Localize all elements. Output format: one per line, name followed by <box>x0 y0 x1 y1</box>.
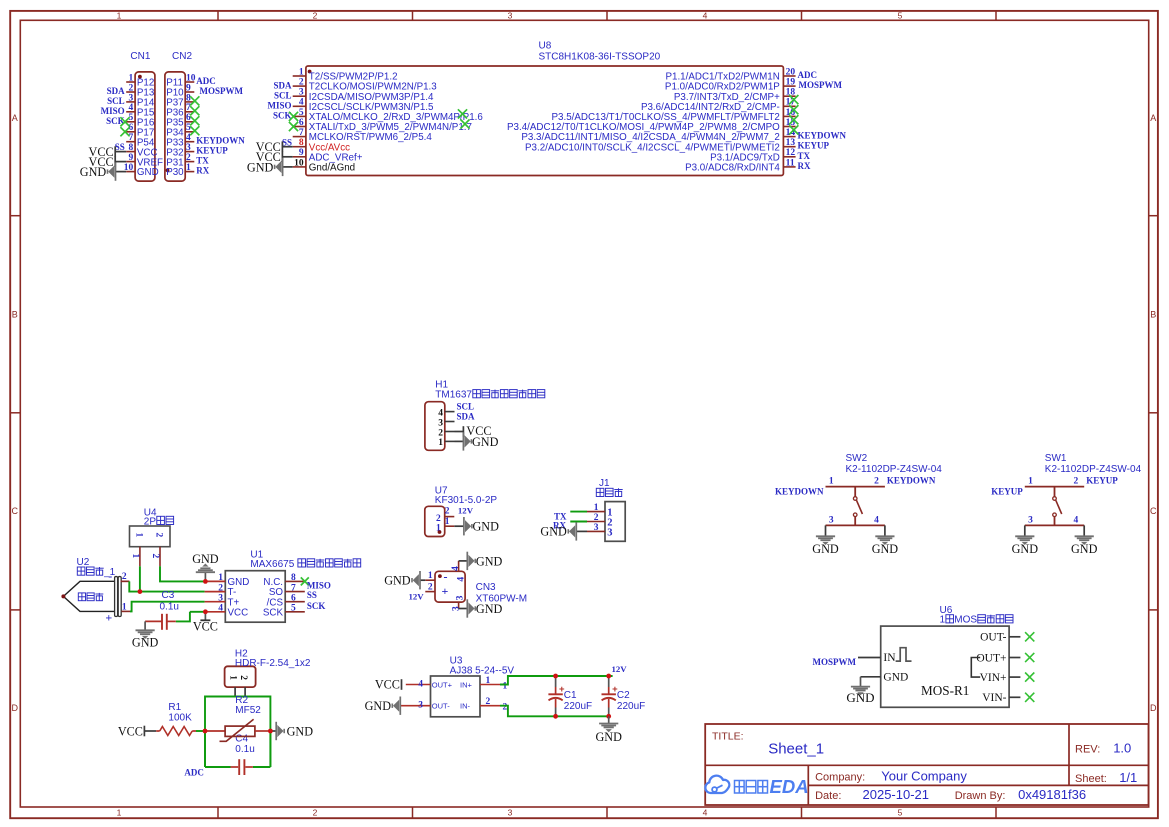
svg-text:Drawn By:: Drawn By: <box>955 790 1006 802</box>
svg-text:1: 1 <box>428 571 433 581</box>
svg-text:C: C <box>1150 506 1157 516</box>
svg-text:GND: GND <box>247 160 274 174</box>
svg-text:ADC: ADC <box>798 70 818 80</box>
svg-text:KEYDOWN: KEYDOWN <box>798 131 847 141</box>
svg-text:MOSPWM: MOSPWM <box>799 80 843 90</box>
svg-text:1: 1 <box>128 73 133 83</box>
svg-text:1: 1 <box>445 517 450 527</box>
svg-text:1: 1 <box>299 67 304 77</box>
svg-text:6: 6 <box>299 118 304 128</box>
svg-text:4: 4 <box>456 577 466 582</box>
svg-text:MF52: MF52 <box>235 705 261 716</box>
svg-text:3: 3 <box>186 143 191 153</box>
svg-text:VCC: VCC <box>228 607 249 618</box>
svg-text:3: 3 <box>418 701 423 711</box>
svg-text:TM1637: TM1637 <box>435 390 472 401</box>
svg-text:8: 8 <box>128 143 133 153</box>
svg-text:SCL: SCL <box>107 96 125 106</box>
svg-text:A: A <box>1150 113 1156 123</box>
svg-text:B: B <box>1150 310 1156 320</box>
svg-text:Sheet:: Sheet: <box>1075 773 1107 785</box>
svg-text:1: 1 <box>186 163 191 173</box>
svg-text:GND: GND <box>472 435 499 449</box>
svg-text:C1: C1 <box>564 690 577 701</box>
svg-text:4: 4 <box>438 408 443 418</box>
svg-text:KEYUP: KEYUP <box>798 141 830 151</box>
svg-text:KEYDOWN: KEYDOWN <box>775 486 824 496</box>
svg-text:EDA: EDA <box>770 776 809 797</box>
svg-text:IN: IN <box>883 652 896 664</box>
svg-text:3: 3 <box>594 523 599 533</box>
svg-text:R1: R1 <box>168 702 181 713</box>
svg-text:A: A <box>12 113 18 123</box>
svg-text:1: 1 <box>130 554 140 559</box>
svg-text:MOS-R1: MOS-R1 <box>921 683 969 698</box>
svg-text:3: 3 <box>456 595 466 600</box>
svg-text:3: 3 <box>1028 516 1033 526</box>
svg-text:U8: U8 <box>539 41 552 52</box>
svg-text:1: 1 <box>134 533 144 538</box>
svg-text:SW2: SW2 <box>846 453 868 464</box>
svg-text:11: 11 <box>786 158 795 168</box>
svg-text:MAX6675: MAX6675 <box>250 559 297 570</box>
svg-text:GND: GND <box>872 542 899 556</box>
svg-text:2P: 2P <box>144 516 157 527</box>
svg-text:3: 3 <box>451 606 461 611</box>
svg-text:3: 3 <box>299 88 304 98</box>
svg-text:GND: GND <box>365 699 392 713</box>
svg-text:B: B <box>12 310 18 320</box>
svg-text:Date:: Date: <box>815 790 841 802</box>
svg-text:1.0: 1.0 <box>1113 741 1131 756</box>
svg-text:2: 2 <box>299 78 304 88</box>
svg-text:2: 2 <box>436 514 441 524</box>
svg-text:-: - <box>444 570 448 584</box>
svg-text:2: 2 <box>1073 477 1078 487</box>
svg-text:SCK: SCK <box>263 607 284 618</box>
svg-text:220uF: 220uF <box>617 701 645 712</box>
svg-text:ADC: ADC <box>196 76 216 86</box>
svg-text:SCL: SCL <box>274 90 292 100</box>
svg-text:GND: GND <box>476 602 503 616</box>
svg-text:0.1u: 0.1u <box>235 744 254 755</box>
svg-text:4: 4 <box>703 11 708 21</box>
svg-text:VCC: VCC <box>193 620 218 634</box>
svg-text:GND: GND <box>80 165 107 179</box>
svg-text:4: 4 <box>874 516 879 526</box>
svg-text:C: C <box>12 506 19 516</box>
svg-text:KEYUP: KEYUP <box>991 486 1023 496</box>
svg-text:HDR-F-2.54_1x2: HDR-F-2.54_1x2 <box>235 658 311 669</box>
svg-text:7: 7 <box>128 133 133 143</box>
svg-text:1/1: 1/1 <box>1119 770 1137 785</box>
svg-text:4: 4 <box>1073 516 1078 526</box>
svg-text:1: 1 <box>117 808 122 818</box>
svg-text:MOSPWM: MOSPWM <box>200 86 244 96</box>
svg-text:D: D <box>1150 703 1157 713</box>
svg-text:MOS: MOS <box>954 615 977 626</box>
svg-text:1: 1 <box>486 676 491 686</box>
svg-text:VIN-: VIN- <box>982 692 1006 704</box>
svg-text:C2: C2 <box>617 690 630 701</box>
svg-text:2: 2 <box>154 533 164 538</box>
svg-text:VCC: VCC <box>118 724 143 738</box>
svg-text:GND: GND <box>192 552 219 566</box>
svg-text:KEYUP: KEYUP <box>1086 475 1118 485</box>
svg-text:3: 3 <box>607 528 612 539</box>
svg-text:K2-1102DP-Z4SW-04: K2-1102DP-Z4SW-04 <box>846 464 943 475</box>
svg-text:VIN+: VIN+ <box>980 672 1007 684</box>
svg-text:1: 1 <box>940 615 946 626</box>
svg-text:SCL: SCL <box>457 402 475 412</box>
svg-text:7: 7 <box>299 128 304 138</box>
svg-text:1: 1 <box>594 503 599 513</box>
svg-text:2: 2 <box>445 507 450 517</box>
svg-text:+: + <box>442 584 449 598</box>
svg-text:KEYDOWN: KEYDOWN <box>196 136 245 146</box>
svg-text:D: D <box>12 703 19 713</box>
svg-text:1: 1 <box>829 477 834 487</box>
svg-text:GND: GND <box>1012 542 1039 556</box>
svg-text:Your Company: Your Company <box>881 768 967 783</box>
svg-text:KEYDOWN: KEYDOWN <box>887 475 936 485</box>
svg-text:CN2: CN2 <box>172 51 192 62</box>
svg-text:SDA: SDA <box>273 80 292 90</box>
svg-text:REV:: REV: <box>1075 744 1100 756</box>
svg-text:2: 2 <box>238 675 248 680</box>
svg-text:GND: GND <box>384 574 411 588</box>
svg-text:2: 2 <box>150 554 160 559</box>
svg-text:TITLE:: TITLE: <box>712 731 744 743</box>
svg-text:+: + <box>105 611 112 625</box>
svg-text:GND: GND <box>595 730 622 744</box>
svg-text:GND: GND <box>476 554 503 568</box>
svg-text:2: 2 <box>428 583 433 593</box>
svg-text:3: 3 <box>128 93 133 103</box>
svg-text:GND: GND <box>137 167 159 178</box>
svg-text:2: 2 <box>503 703 508 713</box>
svg-text:P30: P30 <box>166 167 184 178</box>
svg-text:MISO: MISO <box>307 580 331 590</box>
svg-text:1: 1 <box>503 681 508 691</box>
svg-text:GND: GND <box>883 672 908 684</box>
svg-text:TX: TX <box>798 151 811 161</box>
svg-text:P3.0/ADC8/RxD/INT4: P3.0/ADC8/RxD/INT4 <box>685 163 780 174</box>
svg-text:12V: 12V <box>458 505 474 515</box>
svg-text:1: 1 <box>122 602 127 612</box>
svg-text:1: 1 <box>117 11 122 21</box>
svg-text:1: 1 <box>1028 477 1033 487</box>
svg-text:GND: GND <box>846 690 874 705</box>
svg-text:0.1u: 0.1u <box>160 601 179 612</box>
svg-text:ADC: ADC <box>184 768 204 778</box>
svg-text:2: 2 <box>486 697 491 707</box>
svg-text:0x49181f36: 0x49181f36 <box>1018 787 1086 802</box>
svg-text:5: 5 <box>898 808 903 818</box>
svg-text:SS: SS <box>307 590 317 600</box>
svg-text:2025-10-21: 2025-10-21 <box>863 787 930 802</box>
svg-text:GND: GND <box>1071 542 1098 556</box>
svg-text:KEYUP: KEYUP <box>196 146 228 156</box>
svg-text:9: 9 <box>186 83 191 93</box>
svg-text:5: 5 <box>299 108 304 118</box>
svg-text:4: 4 <box>703 808 708 818</box>
svg-text:-: - <box>108 569 112 583</box>
svg-text:J1: J1 <box>599 478 610 489</box>
svg-text:OUT-: OUT- <box>980 632 1007 644</box>
svg-text:3: 3 <box>438 418 443 428</box>
svg-text:19: 19 <box>786 78 796 88</box>
svg-text:2: 2 <box>313 808 318 818</box>
svg-text:9: 9 <box>128 153 133 163</box>
svg-text:10: 10 <box>186 73 196 83</box>
svg-text:GND: GND <box>287 725 314 739</box>
svg-text:TX: TX <box>196 156 209 166</box>
svg-text:MOSPWM: MOSPWM <box>813 657 857 667</box>
svg-text:5: 5 <box>898 11 903 21</box>
svg-text:Company:: Company: <box>815 771 865 783</box>
svg-text:U2: U2 <box>77 557 90 568</box>
svg-text:IN-: IN- <box>460 702 471 711</box>
svg-text:12: 12 <box>786 148 796 158</box>
svg-text:SS: SS <box>115 142 125 152</box>
svg-text:3: 3 <box>508 11 513 21</box>
svg-text:MISO: MISO <box>267 101 291 111</box>
svg-text:4: 4 <box>451 566 461 571</box>
svg-text:SDA: SDA <box>107 86 126 96</box>
svg-text:220uF: 220uF <box>564 701 592 712</box>
svg-text:SDA: SDA <box>457 412 476 422</box>
svg-text:12V: 12V <box>612 664 628 674</box>
svg-text:CN3: CN3 <box>476 582 496 593</box>
svg-text:100K: 100K <box>168 712 192 723</box>
svg-text:2: 2 <box>594 513 599 523</box>
svg-text:GND: GND <box>540 525 567 539</box>
svg-text:MISO: MISO <box>101 106 125 116</box>
svg-text:C3: C3 <box>162 590 175 601</box>
svg-text:OUT+: OUT+ <box>976 652 1006 664</box>
svg-text:SCK: SCK <box>307 601 326 611</box>
svg-text:8: 8 <box>186 93 191 103</box>
svg-text:Gnd/AGnd: Gnd/AGnd <box>309 163 355 174</box>
svg-text:9: 9 <box>299 148 304 158</box>
svg-text:3: 3 <box>508 808 513 818</box>
svg-text:K2-1102DP-Z4SW-04: K2-1102DP-Z4SW-04 <box>1045 464 1142 475</box>
svg-text:4: 4 <box>299 98 304 108</box>
svg-text:Sheet_1: Sheet_1 <box>768 741 824 758</box>
svg-text:2: 2 <box>313 11 318 21</box>
svg-text:1: 1 <box>438 438 443 448</box>
svg-text:4: 4 <box>128 103 133 113</box>
svg-text:CN1: CN1 <box>130 51 150 62</box>
svg-text:OUT+: OUT+ <box>432 680 453 689</box>
svg-text:10: 10 <box>294 158 304 168</box>
svg-text:AJ38 5-24--5V: AJ38 5-24--5V <box>450 666 515 677</box>
svg-text:12V: 12V <box>408 592 424 602</box>
svg-text:OUT-: OUT- <box>432 702 450 711</box>
svg-text:20: 20 <box>786 67 796 77</box>
svg-text:SW1: SW1 <box>1045 453 1067 464</box>
svg-text:GND: GND <box>812 542 839 556</box>
svg-text:2: 2 <box>128 83 133 93</box>
svg-text:8: 8 <box>299 138 304 148</box>
svg-text:3: 3 <box>829 516 834 526</box>
svg-text:13: 13 <box>786 138 796 148</box>
svg-text:RX: RX <box>798 161 811 171</box>
svg-text:GND: GND <box>473 520 500 534</box>
svg-text:RX: RX <box>196 166 209 176</box>
svg-text:4: 4 <box>418 679 423 689</box>
svg-text:2: 2 <box>874 477 879 487</box>
svg-text:GND: GND <box>132 635 159 649</box>
svg-text:STC8H1K08-36I-TSSOP20: STC8H1K08-36I-TSSOP20 <box>539 52 661 63</box>
svg-text:1: 1 <box>436 524 441 534</box>
svg-text:2: 2 <box>438 428 443 438</box>
svg-text:VCC: VCC <box>375 678 400 692</box>
svg-text:1: 1 <box>227 675 237 680</box>
svg-text:IN+: IN+ <box>460 680 473 689</box>
svg-text:2: 2 <box>186 153 191 163</box>
